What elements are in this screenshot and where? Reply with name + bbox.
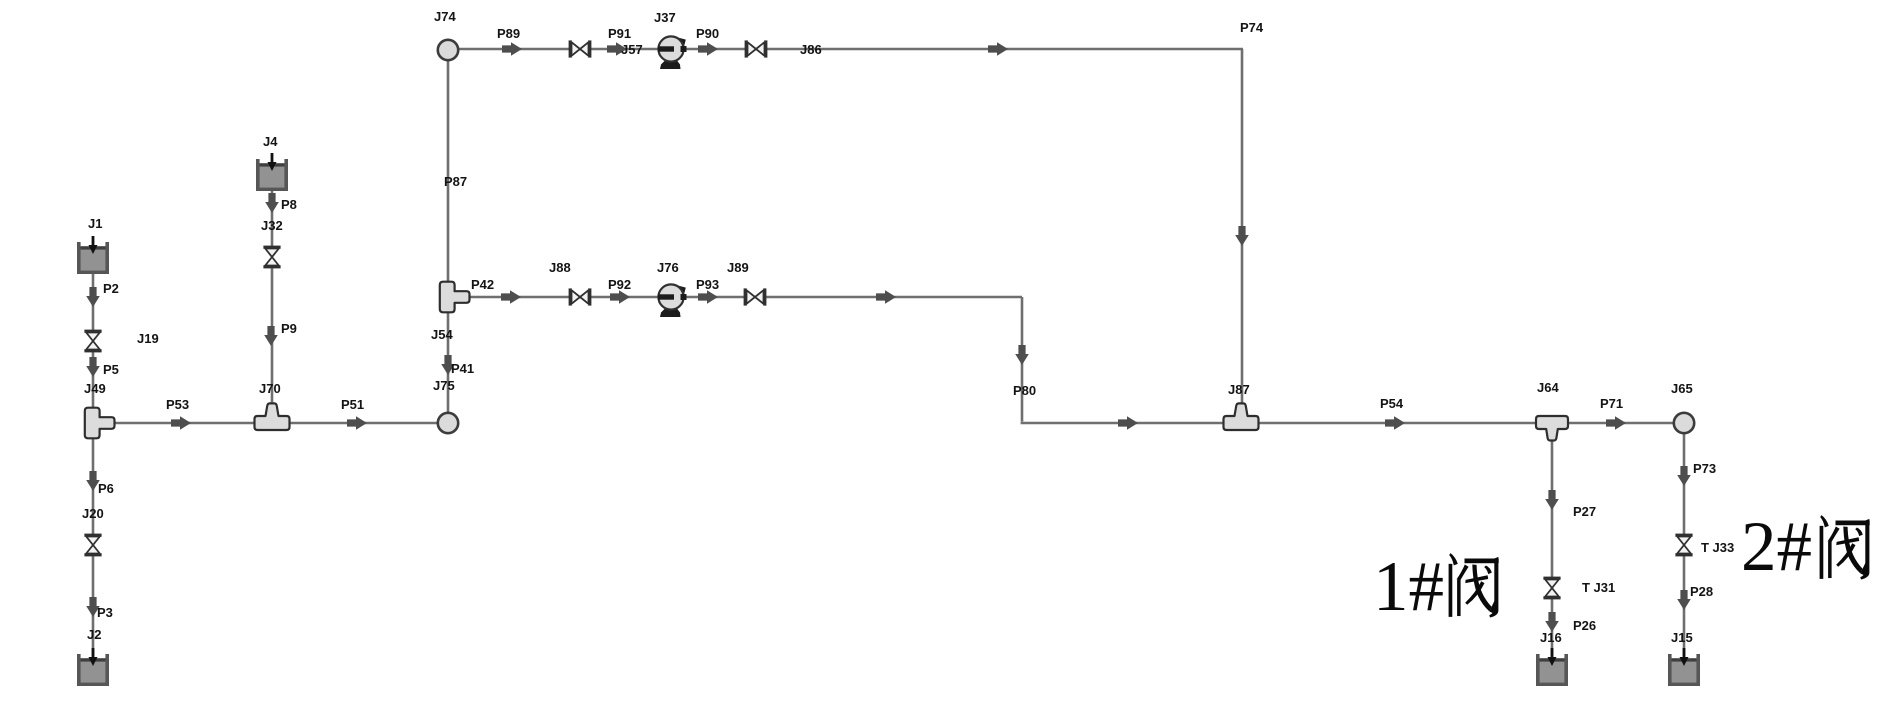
svg-text:P9: P9	[281, 321, 297, 336]
arrow pipe P6 down	[86, 471, 100, 491]
svg-text:J49: J49	[84, 381, 106, 396]
svg-text:J54: J54	[431, 327, 453, 342]
svg-text:T J33: T J33	[1701, 540, 1734, 555]
junction J65 circle	[1674, 413, 1694, 433]
tee J54	[440, 282, 470, 313]
arrow pipe P73 down	[1677, 466, 1691, 486]
tee J70	[255, 403, 290, 430]
wire J4 column vertical	[271, 186, 274, 412]
wire P80 horizontal to J87	[1021, 422, 1242, 425]
svg-text:J74: J74	[434, 9, 456, 24]
svg-text:P28: P28	[1690, 584, 1713, 599]
annotation 2# fa glyph	[1820, 515, 1870, 579]
svg-text:P73: P73	[1693, 461, 1716, 476]
tee J49	[85, 408, 115, 439]
arrow pipe P27 down	[1545, 490, 1559, 510]
svg-text:P54: P54	[1380, 396, 1404, 411]
wire main line J49 to J75	[95, 422, 438, 425]
svg-text:P8: P8	[281, 197, 297, 212]
svg-text:J2: J2	[87, 627, 101, 642]
svg-text:J20: J20	[82, 506, 104, 521]
svg-text:J64: J64	[1537, 380, 1559, 395]
tank J16	[1536, 648, 1568, 686]
junction J75 circle	[438, 413, 458, 433]
valve J89	[744, 288, 767, 305]
svg-text:P91: P91	[608, 26, 631, 41]
svg-text:2#: 2#	[1741, 508, 1812, 586]
svg-text:P71: P71	[1600, 396, 1623, 411]
valve J57	[569, 40, 592, 57]
valve J88	[569, 288, 592, 305]
svg-text:J1: J1	[88, 216, 102, 231]
arrow pipe P54	[1385, 416, 1405, 430]
svg-text:P89: P89	[497, 26, 520, 41]
tank J4	[256, 153, 288, 191]
annotation 1# fa glyph	[1449, 553, 1499, 617]
valve J86	[745, 40, 768, 57]
arrow pipe P28 down	[1677, 590, 1691, 610]
wire J64 branch down	[1551, 434, 1554, 656]
arrow pipe P2 down	[86, 287, 100, 307]
wire middle row J54 to corner	[455, 296, 1022, 299]
arrow pipe P42	[501, 290, 521, 304]
svg-text:J76: J76	[657, 260, 679, 275]
svg-text:P74: P74	[1240, 20, 1264, 35]
arrow pipe P93	[698, 290, 718, 304]
tee J64	[1536, 416, 1568, 441]
arrow pipe P51	[347, 416, 367, 430]
svg-text:P90: P90	[696, 26, 719, 41]
valve J32	[263, 246, 280, 269]
svg-text:P3: P3	[97, 605, 113, 620]
arrow pipe P89	[502, 42, 522, 56]
arrow pipe P41 down	[441, 355, 455, 375]
arrow pipe P5 down	[86, 357, 100, 377]
valve T J33	[1675, 534, 1692, 557]
valve J20	[84, 534, 101, 557]
arrow pipe P3 down	[86, 597, 100, 617]
arrow pipe P91	[607, 42, 627, 56]
svg-text:J32: J32	[261, 218, 283, 233]
wire J87 to J64	[1242, 422, 1552, 425]
svg-text:P5: P5	[103, 362, 119, 377]
pump J76	[658, 284, 687, 317]
tank J1	[77, 236, 109, 274]
arrow pipe P80 down	[1015, 345, 1029, 365]
svg-text:P6: P6	[98, 481, 114, 496]
svg-text:J19: J19	[137, 331, 159, 346]
tank J2	[77, 648, 109, 686]
wire top row J74 to corner	[449, 48, 1243, 51]
svg-text:P51: P51	[341, 397, 364, 412]
svg-text:J88: J88	[549, 260, 571, 275]
arrow pipe P74 down	[1235, 226, 1249, 246]
arrow pipe P9 down	[264, 326, 278, 346]
arrow pipe P90	[698, 42, 718, 56]
svg-text:P42: P42	[471, 277, 494, 292]
wire J65 branch down	[1683, 432, 1686, 656]
svg-text:P2: P2	[103, 281, 119, 296]
svg-text:J75: J75	[433, 378, 455, 393]
arrow pipe P53	[171, 416, 191, 430]
svg-text:J89: J89	[727, 260, 749, 275]
svg-text:J70: J70	[259, 381, 281, 396]
arrow pipe P92	[610, 290, 630, 304]
svg-text:J86: J86	[800, 42, 822, 57]
svg-text:P26: P26	[1573, 618, 1596, 633]
svg-text:J57: J57	[621, 42, 643, 57]
arrow pipe P8 down	[265, 193, 279, 213]
svg-text:T J31: T J31	[1582, 580, 1615, 595]
arrow pipe J89 run	[876, 290, 896, 304]
svg-text:P80: P80	[1013, 383, 1036, 398]
svg-text:1#: 1#	[1373, 548, 1444, 626]
arrow pipe P80 horizontal	[1118, 416, 1138, 430]
arrow pipe J86 run	[988, 42, 1008, 56]
svg-text:J4: J4	[263, 134, 278, 149]
svg-text:J65: J65	[1671, 381, 1693, 396]
wire P80 vertical drop	[1021, 297, 1024, 422]
junction J74 circle	[438, 40, 458, 60]
wire J1 column vertical	[92, 270, 95, 656]
svg-text:J37: J37	[654, 10, 676, 25]
svg-text:J87: J87	[1228, 382, 1250, 397]
svg-text:J15: J15	[1671, 630, 1693, 645]
svg-text:P41: P41	[451, 361, 474, 376]
tank J15	[1668, 648, 1700, 686]
wire P74 vertical drop	[1241, 49, 1244, 404]
arrow pipe P71	[1606, 416, 1626, 430]
svg-text:P93: P93	[696, 277, 719, 292]
arrow pipe P26 down	[1545, 612, 1559, 632]
svg-text:J16: J16	[1540, 630, 1562, 645]
valve T J31	[1543, 577, 1560, 600]
wire J64 to J65	[1552, 422, 1675, 425]
wire P87/P41 vertical J74 to J75	[447, 49, 450, 414]
tee J87	[1224, 403, 1259, 430]
svg-text:P87: P87	[444, 174, 467, 189]
svg-text:P92: P92	[608, 277, 631, 292]
valve J19	[84, 330, 101, 353]
svg-text:P27: P27	[1573, 504, 1596, 519]
svg-text:P53: P53	[166, 397, 189, 412]
pump J37	[658, 36, 687, 69]
